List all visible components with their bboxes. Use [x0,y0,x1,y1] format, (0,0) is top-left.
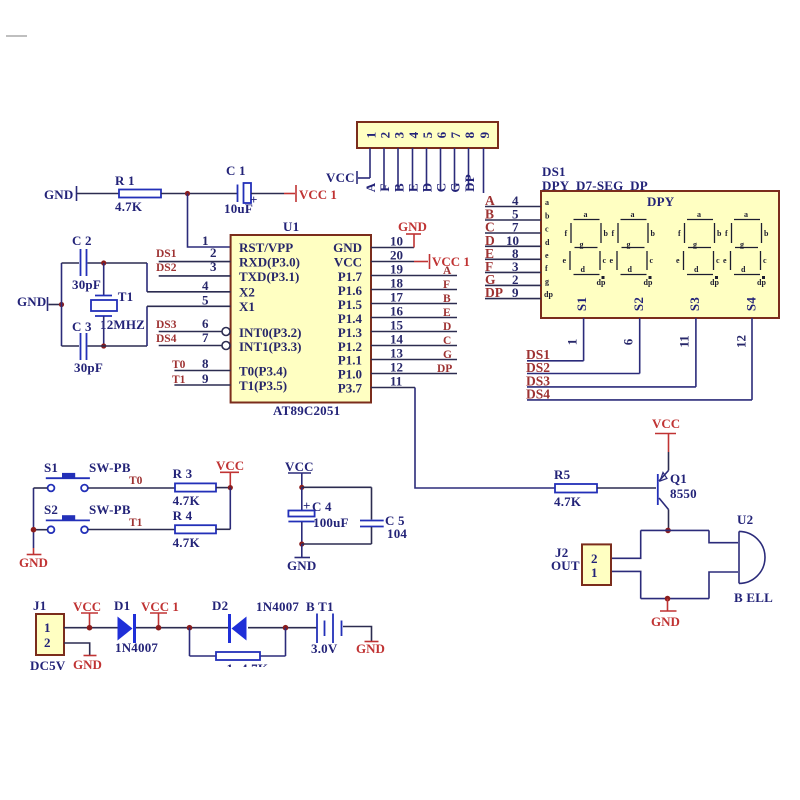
svg-text:9: 9 [477,131,492,138]
svg-text:g: g [545,277,549,286]
7-seg digit 3 [676,210,722,287]
svg-text:OUT: OUT [551,558,580,573]
svg-text:S3: S3 [687,297,702,311]
svg-text:4.7K: 4.7K [173,493,201,508]
wire C4/C5 bottom rail [302,543,372,545]
node E row to segment e [485,246,541,261]
svg-text:F: F [377,183,392,191]
resistor R4 [173,508,216,550]
capacitor C5 104 [360,487,407,544]
svg-text:1N4007: 1N4007 [115,640,158,655]
svg-text:DS4: DS4 [156,333,177,345]
svg-text:VCC 1: VCC 1 [299,187,337,202]
svg-text:U2: U2 [737,512,753,527]
wire J1 pin1 to D1 [64,627,118,629]
svg-text:d: d [694,265,699,274]
power VCC at C4 [285,459,314,487]
pin 9 T1 [172,371,287,393]
wire Q1 emitter up [668,452,670,471]
wire crystal top stub [103,263,105,295]
svg-text:a: a [744,210,748,219]
node C row to segment c [485,220,541,235]
svg-text:b: b [545,212,550,221]
svg-text:2: 2 [44,635,51,650]
crystal T1 12MHZ [91,289,145,332]
svg-text:12: 12 [390,360,403,375]
svg-text:8: 8 [202,356,209,371]
svg-text:X1: X1 [239,299,255,314]
svg-text:dp: dp [644,278,653,287]
pin 19 P1.7 net A [338,262,457,284]
svg-text:P1.4: P1.4 [338,311,363,326]
pin 3 TXD, net DS2 [156,259,299,284]
wire J2 pin1 to bottom rail [611,571,641,598]
transistor Q1 8550 [658,471,697,510]
pin 12 P1.0 net DP [338,360,457,382]
svg-text:GND: GND [44,187,74,202]
svg-text:2: 2 [591,551,598,566]
svg-text:DPY: DPY [647,194,675,209]
svg-text:TXD(P3.1): TXD(P3.1) [239,269,299,284]
wire battery to ground [343,627,372,642]
capacitor C3 30pF [72,319,103,375]
pin 1 RST/VPP [202,233,293,255]
svg-text:SW-PB: SW-PB [89,460,131,475]
wire X1 riser [146,306,148,346]
svg-text:DP: DP [485,285,503,300]
wire connector pin 8 [468,148,470,190]
svg-text:5: 5 [202,293,209,308]
op-amp U1 AT89C2051 body [231,219,371,418]
svg-text:B ELL: B ELL [734,590,773,605]
svg-text:GND: GND [651,614,680,629]
pin 18 P1.6 net F [338,276,457,298]
resistor bypass 4.7K (clipped) [216,652,269,676]
node junction VCC on wire [87,625,93,631]
wire J2 pin2 to top rail [611,530,641,558]
svg-text:7: 7 [202,330,209,345]
svg-text:GND: GND [398,219,427,234]
ground GND at bell [651,599,680,629]
svg-text:GND: GND [287,558,317,573]
svg-text:D: D [443,321,451,333]
wire crystal left rail [61,263,63,346]
display DS1 body [541,191,779,318]
svg-text:J1: J1 [33,598,46,613]
connector J2 OUT [551,544,611,585]
svg-text:a: a [697,210,701,219]
diode D1 1N4007 [114,598,158,655]
svg-text:DS3: DS3 [156,319,177,331]
svg-text:1: 1 [202,233,209,248]
svg-text:c: c [650,256,654,265]
ground GND at J1 [73,656,102,673]
svg-text:P1.6: P1.6 [338,283,363,298]
wire GND to R1 [77,193,119,195]
svg-text:F: F [443,279,450,291]
svg-text:b: b [717,229,722,238]
wire P3.7 to R5 [415,388,555,489]
7-seg digit 1 [563,210,609,287]
svg-text:S2: S2 [44,502,58,517]
svg-text:1: 1 [44,620,51,635]
svg-text:c: c [545,225,549,234]
svg-text:a: a [545,198,549,207]
node G row to segment g [485,272,541,287]
svg-text:3.0V: 3.0V [311,641,338,656]
wire S1 to R3 [88,487,175,489]
svg-text:DS1: DS1 [156,248,177,260]
svg-text:Q1: Q1 [670,471,687,486]
wire bell bottom rail [641,598,709,600]
resistor R1 [115,173,161,214]
node junction bypass right [283,625,289,631]
svg-text:30pF: 30pF [72,277,101,292]
svg-text:4.7K: 4.7K [115,199,143,214]
node junction crystal top [101,260,106,265]
svg-text:T1: T1 [129,517,143,529]
svg-text:e: e [545,251,549,260]
ground GND symbol at pin 10 [398,219,427,248]
svg-text:D1: D1 [114,598,130,613]
pin 16 P1.4 net E [338,304,457,326]
resistor R5 [554,467,597,509]
node junction S2 left [31,527,37,533]
svg-text:S1: S1 [574,297,589,311]
svg-text:6: 6 [202,316,209,331]
svg-text:S2: S2 [631,297,646,311]
svg-text:f: f [545,264,548,273]
node junction collector / bell rail [665,528,671,534]
node DS2 row [526,360,640,375]
wire junction down to U1 pin 1 [188,194,231,248]
svg-text:dp: dp [757,278,766,287]
svg-text:e: e [563,256,567,265]
svg-text:9: 9 [512,285,519,300]
svg-text:f: f [612,229,615,238]
svg-text:A: A [363,182,378,192]
svg-text:10uF: 10uF [224,201,253,216]
node junction bypass left [187,625,193,631]
svg-text:3: 3 [392,131,407,138]
svg-text:11: 11 [390,374,402,389]
svg-text:d: d [545,238,550,247]
svg-text:3: 3 [210,259,217,274]
pin 8 T0 [172,356,287,379]
svg-text:e: e [676,256,680,265]
svg-text:e: e [610,256,614,265]
pin 10 GND [333,234,414,256]
svg-text:C 4: C 4 [312,499,332,514]
svg-text:DS1: DS1 [542,164,566,179]
wire S3 down [695,318,697,387]
svg-text:P1.3: P1.3 [338,325,363,340]
svg-text:VCC: VCC [326,170,355,185]
node junction GND on crystal rail [59,302,64,307]
node DS4 row [526,387,752,402]
svg-text:GND: GND [19,555,48,570]
connector header 1-9 [357,122,498,148]
svg-text:R 1: R 1 [115,173,135,188]
svg-text:d: d [741,265,746,274]
wire crystal bottom rail [62,345,148,347]
pin 13 P1.1 net G [338,346,457,368]
wire connector pin 5 [426,148,428,190]
speaker U2 BELL [734,512,773,605]
wire VCC down to R4 [229,488,231,530]
svg-text:T1: T1 [118,289,134,304]
svg-text:D2: D2 [212,598,228,613]
svg-text:10: 10 [390,234,403,249]
svg-text:VCC: VCC [73,599,101,614]
svg-text:1: 1 [591,565,598,580]
wire crystal bottom stub [103,316,105,346]
pin 17 P1.5 net B [338,290,457,312]
svg-text:6: 6 [621,338,636,345]
node junction C4 bottom [299,541,304,546]
power VCC at R3 [216,458,244,486]
pin 20 VCC [334,248,414,270]
ground GND net label left of R1 [44,186,77,202]
svg-text:+: + [303,498,311,513]
svg-text:a: a [631,210,635,219]
svg-text:2: 2 [210,245,217,260]
svg-text:8550: 8550 [670,486,697,501]
wire R3 to VCC node [216,487,230,489]
svg-text:6: 6 [434,131,449,138]
svg-text:17: 17 [390,290,404,305]
pin 15 P1.3 net D [338,318,457,341]
node junction R3/R4 VCC [228,485,233,490]
svg-text:INT1(P3.3): INT1(P3.3) [239,339,301,354]
pin 14 P1.2 net C [338,332,457,355]
ground GND at battery [356,641,385,656]
power VCC at Q1 [652,416,680,452]
svg-text:d: d [581,265,586,274]
display left pin letters [544,198,553,299]
svg-text:R 3: R 3 [173,466,193,481]
wire connector pin 3 [397,148,399,190]
wire S2 to R4 [88,529,175,531]
svg-text:P3.7: P3.7 [338,381,363,396]
svg-text:U1: U1 [283,219,299,234]
svg-text:b: b [651,229,656,238]
node DP row to segment dp [485,285,541,300]
svg-text:DS2: DS2 [156,262,177,274]
wire top rail to bell plus [709,530,738,542]
svg-text:GND: GND [73,657,102,672]
svg-text:C: C [434,183,449,193]
svg-text:dp: dp [710,278,719,287]
power VCC1 after D1 [141,599,179,626]
svg-text:VCC: VCC [652,416,680,431]
svg-text:e: e [723,256,727,265]
svg-text:P1.1: P1.1 [338,353,362,368]
svg-text:b: b [764,229,769,238]
svg-text:c: c [763,256,767,265]
wire S1 down [583,318,585,361]
svg-text:GND: GND [17,294,47,309]
svg-text:P1.5: P1.5 [338,297,363,312]
node junction crystal bottom [101,343,106,348]
svg-text:1: 1 [565,339,580,346]
wire D1 to D2 [136,627,229,629]
svg-text:C 3: C 3 [72,319,92,334]
svg-text:T0: T0 [172,359,186,371]
svg-text:B: B [392,183,407,192]
svg-text:4: 4 [202,278,209,293]
svg-text:12MHZ: 12MHZ [100,317,145,332]
power VCC at J1 [73,599,101,626]
svg-text:S1: S1 [44,460,58,475]
power VCC label at connector pin 1 [326,170,370,185]
svg-text:f: f [678,229,681,238]
svg-text:P1.0: P1.0 [338,367,362,382]
svg-text:DC5V: DC5V [30,658,66,673]
wire X2 riser [146,263,148,292]
ground GND net label at crystal [17,294,62,311]
pin 2 RXD, net DS1 [156,245,300,270]
pin 11 P3.7 [338,374,415,396]
ground GND below switches [19,548,48,570]
svg-text:S4: S4 [744,297,759,311]
svg-text:B: B [443,293,451,305]
svg-text:G: G [448,182,463,192]
svg-text:R5: R5 [554,467,571,482]
wire R5 to Q1 base [597,487,656,489]
connector J1 DC5V [30,598,66,673]
svg-text:DP: DP [437,363,452,375]
wire S2 down [639,318,641,374]
svg-text:30pF: 30pF [74,360,103,375]
wire connector pin 9 [483,148,485,193]
wire connector pin 1 [369,148,371,178]
wire C1 to VCC1 [251,193,284,195]
node junction VCC1 on wire [156,625,162,631]
power VCC1 label at C1 [284,185,337,202]
capacitor C4 100uF [288,487,348,544]
svg-text:R 4: R 4 [173,508,193,523]
wire crystal top rail [62,262,148,264]
node DS1 row [526,347,584,362]
svg-text:11: 11 [677,335,692,347]
wire R1 to C1 [161,193,237,195]
wire bell top rail [641,529,709,531]
7-seg digit 4 [723,210,769,287]
svg-text:T0: T0 [129,475,143,487]
svg-text:5: 5 [420,131,435,138]
svg-text:1N4007: 1N4007 [256,599,299,614]
node junction GND on bell rail [665,596,671,602]
svg-text:4: 4 [406,131,421,138]
svg-text:4.7K: 4.7K [554,494,582,509]
pin 7 INT1, net DS4 [156,330,301,354]
svg-text:104: 104 [387,526,407,541]
wire connector pin 7 [454,148,456,190]
svg-text:D: D [420,183,435,193]
svg-text:DP: DP [462,174,477,192]
svg-text:E: E [443,307,451,319]
switch S1 SW-PB [44,460,131,491]
svg-text:E: E [406,183,421,192]
svg-text:T0(P3.4): T0(P3.4) [239,364,287,379]
pin 5 X1 [147,293,255,315]
wire connector pin 2 [383,148,385,190]
svg-text:18: 18 [390,276,404,291]
svg-text:9: 9 [202,371,209,386]
node A row to segment a [485,193,541,208]
svg-text:GND: GND [356,641,385,656]
svg-text:A: A [443,265,452,277]
svg-text:C 1: C 1 [226,163,246,178]
svg-text:c: c [603,256,607,265]
svg-text:8: 8 [462,131,477,138]
svg-text:7: 7 [448,131,463,138]
wire connector pin 6 [440,148,442,190]
svg-text:16: 16 [390,304,404,319]
svg-text:AT89C2051: AT89C2051 [273,403,340,418]
7-seg digit 2 [610,210,656,287]
wire J1 pin2 to ground [64,643,90,655]
svg-text:12: 12 [734,335,749,348]
capacitor C2 30pF [72,233,101,292]
svg-text:T1(P3.5): T1(P3.5) [239,378,287,393]
svg-text:C: C [443,335,451,347]
svg-text:X2: X2 [239,285,255,300]
svg-text:a: a [584,210,588,219]
resistor R3 [173,466,216,508]
svg-text:RST/VPP: RST/VPP [239,240,293,255]
wire connector pin 4 [412,148,414,190]
svg-text:B T1: B T1 [306,599,334,614]
svg-text:VCC: VCC [216,458,244,473]
ground GND at C4 [287,544,317,573]
svg-text:P1.7: P1.7 [338,269,363,284]
svg-text:2: 2 [378,132,393,139]
switch S2 SW-PB [44,502,131,533]
svg-text:d: d [628,265,633,274]
svg-text:VCC: VCC [285,459,314,474]
svg-text:20: 20 [390,248,403,263]
node junction R1/C1/pin1 [185,191,190,196]
capacitor C1 10uF [224,163,258,216]
svg-text:b: b [604,229,609,238]
pin 4 X2 [147,278,255,300]
svg-text:G: G [443,349,452,361]
svg-text:SW-PB: SW-PB [89,502,131,517]
svg-text:VCC 1: VCC 1 [141,599,179,614]
svg-text:19: 19 [390,262,404,277]
node DS3 row [526,374,696,389]
wire S4 down [751,318,753,400]
svg-text:INT0(P3.2): INT0(P3.2) [239,325,301,340]
pin 6 INT0, net DS3 [156,316,301,340]
wire R4 to VCC riser [216,528,230,530]
svg-text:c: c [716,256,720,265]
node B row to segment b [485,207,541,222]
svg-text:dp: dp [544,290,553,299]
wire D2 to battery [248,627,317,629]
wire switch common left rail [34,488,48,548]
wire bypass branch bottom [190,655,286,657]
wire bypass branch left drop [189,628,191,656]
svg-text:1: 1 [364,132,379,139]
svg-text:RXD(P3.0): RXD(P3.0) [239,255,300,270]
svg-text:13: 13 [390,346,404,361]
svg-text:100uF: 100uF [313,515,349,530]
wire Q1 collector down [668,510,670,531]
wire bypass branch right drop [285,628,287,656]
